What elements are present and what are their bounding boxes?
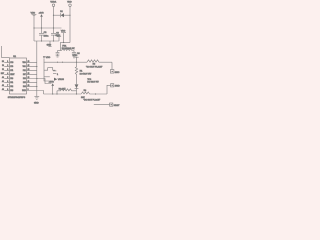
GND flag below rail at x50 bbox=[47, 41, 52, 47]
svg-text:F1: F1 bbox=[2, 69, 4, 71]
svg-text:13: 13 bbox=[28, 73, 30, 75]
IC U1 body bbox=[10, 58, 27, 94]
power symbol VDD (circle style) x70 bbox=[67, 2, 72, 7]
IC right pin stubs row 74.5 bbox=[27, 74, 37, 76]
wire net y62.2 from x44 to resistor R3 bbox=[44, 59, 87, 63]
junction at (95.5,94) bbox=[95, 93, 96, 94]
IC right pin stubs row 62.5 bbox=[27, 62, 37, 64]
svg-text:12: 12 bbox=[28, 77, 30, 79]
svg-text:PA5: PA5 bbox=[23, 81, 26, 84]
junction at (41.5,41) bbox=[41, 40, 42, 41]
junction at (57.5,62.2) bbox=[57, 62, 58, 63]
capacitor C4 at x57.5 with ground bbox=[56, 51, 61, 58]
IC left pin 6 stub bbox=[4, 82, 9, 84]
IC right pin row 78.5 wire to step bbox=[27, 79, 52, 84]
svg-text:9: 9 bbox=[28, 89, 29, 91]
svg-text:STM32F042F6P6: STM32F042F6P6 bbox=[8, 97, 26, 99]
junction at (34,28) bbox=[33, 27, 34, 28]
U1 inside pin names right column bbox=[22, 62, 26, 92]
wire +3V3 stem x41.5 down to capacitor C2 bbox=[41, 17, 43, 34]
svg-text:DO NOT FIT: DO NOT FIT bbox=[80, 73, 92, 75]
svg-text:16: 16 bbox=[28, 61, 30, 63]
diode D1 horizontal at y15.2 bbox=[60, 11, 70, 17]
junction at (53.5,15.2) bbox=[53, 15, 54, 16]
wire GND vertical x36 from rail down to ground bbox=[36, 41, 38, 96]
svg-text:+3V3: +3V3 bbox=[49, 81, 55, 83]
svg-text:D1: D1 bbox=[60, 11, 63, 13]
power flag +3V3 (arrow style) bbox=[39, 13, 45, 17]
connector J1 stepped outline bbox=[44, 62, 58, 81]
svg-text:PA0: PA0 bbox=[10, 77, 13, 80]
resistor R1 vertical on x76.5 bbox=[75, 62, 92, 84]
U1 inside pin names left column bbox=[10, 62, 14, 92]
wire from circle symbol down x53.5 bbox=[53, 6, 55, 33]
svg-text:SWC: SWC bbox=[115, 72, 120, 74]
svg-text:B8: B8 bbox=[2, 61, 4, 63]
ferrite bead FB1 labels bbox=[62, 45, 75, 50]
svg-text:TP2: TP2 bbox=[87, 79, 92, 81]
svg-text:SWD: SWD bbox=[115, 86, 120, 88]
resistor R2 zigzag row y90.8 bbox=[57, 89, 77, 91]
junction at (52.7,94) bbox=[52, 93, 53, 94]
junction at (63.6,42.5) bbox=[63, 42, 64, 43]
junction at (76.5,94) bbox=[76, 93, 77, 94]
svg-text:R3: R3 bbox=[93, 64, 96, 66]
IC right pin stubs row 86.5 bbox=[27, 86, 37, 88]
svg-text:15: 15 bbox=[28, 65, 30, 67]
pin numbers U1 left side bbox=[7, 61, 8, 91]
wire from x53.5 junction to diode D1 bbox=[54, 14, 61, 16]
diode D2 vertical on x76.5 bbox=[75, 84, 79, 94]
power flag VDD (bar style) top-left bbox=[31, 13, 37, 16]
capacitor C5 at x74 with ground bbox=[72, 51, 81, 59]
svg-text:PA1: PA1 bbox=[10, 81, 13, 84]
svg-text:"DO NOT PLACE": "DO NOT PLACE" bbox=[86, 65, 103, 68]
connector pin P2 bbox=[111, 84, 121, 88]
junction at (62.5,62.2) bbox=[62, 62, 63, 63]
svg-text:R4: R4 bbox=[84, 90, 87, 92]
connector pin P1 bbox=[110, 70, 120, 74]
resistor R3 (do not place) on y62.2 bbox=[86, 60, 112, 69]
GND flag above rail at x59 bbox=[55, 35, 61, 41]
junction at (57,94) bbox=[56, 93, 57, 94]
svg-text:VDD: VDD bbox=[23, 62, 27, 64]
junction at (36,78.5) bbox=[36, 78, 37, 79]
net labels left of U1 pins bbox=[1, 61, 4, 91]
svg-text:VDDA: VDDA bbox=[50, 1, 56, 4]
IC left pin 1 stub bbox=[4, 62, 9, 64]
wire VDD stem x34 from flag down to gnd rail bbox=[33, 15, 35, 41]
svg-text:PA7: PA7 bbox=[23, 73, 26, 76]
svg-text:A0: A0 bbox=[2, 76, 4, 79]
ground rail y41 bbox=[34, 40, 59, 42]
svg-text:VDD: VDD bbox=[67, 2, 72, 4]
svg-text:PA13: PA13 bbox=[22, 89, 26, 92]
capacitor C3 on x53.5 bbox=[51, 33, 56, 41]
svg-text:C6: C6 bbox=[77, 53, 80, 55]
junction at (53.5,41) bbox=[53, 40, 54, 41]
svg-text:10: 10 bbox=[28, 85, 30, 87]
svg-text:VSS: VSS bbox=[23, 66, 26, 68]
wire left-edge net into IC top bbox=[1, 46, 9, 57]
svg-text:PA4: PA4 bbox=[23, 85, 26, 88]
junction at (76.5,62.2) bbox=[76, 62, 77, 63]
svg-text:1: 1 bbox=[57, 74, 58, 76]
svg-text:A1: A1 bbox=[2, 80, 4, 83]
svg-text:GND: GND bbox=[34, 103, 39, 105]
svg-text:DO NOT FIT: DO NOT FIT bbox=[87, 82, 99, 84]
svg-text:100n: 100n bbox=[44, 36, 50, 38]
wire x70 from circle down to y42.5 bbox=[69, 6, 71, 42]
svg-text:C3: C3 bbox=[56, 32, 59, 34]
svg-text:PB8: PB8 bbox=[10, 62, 13, 64]
wire corner x112 down to connector P1 bbox=[111, 62, 113, 69]
junction at (36,66.5) bbox=[36, 66, 37, 67]
IC right pin row 90.5 wire corner to bottom net bbox=[27, 91, 44, 95]
svg-text:NRST: NRST bbox=[10, 74, 14, 76]
connector pin P3 bbox=[110, 103, 121, 107]
resistor FB1 zigzag row y50.5 bbox=[60, 49, 74, 51]
IC right pin stubs row 70.5 bbox=[27, 70, 37, 72]
svg-text:11: 11 bbox=[28, 81, 30, 83]
svg-text:RST: RST bbox=[1, 73, 4, 75]
IC right pin stubs row 82.5 bbox=[27, 82, 37, 84]
IC left pin 5 stub bbox=[4, 78, 9, 80]
IC left pin 8 stub bbox=[4, 90, 9, 92]
svg-text:"DO NOT PLACE": "DO NOT PLACE" bbox=[83, 99, 100, 102]
IC left pin 3 stub bbox=[4, 70, 9, 72]
svg-text:VDD: VDD bbox=[31, 13, 36, 15]
net flag arrow down at x44 bbox=[43, 56, 51, 59]
resistor R4 zigzag on y94 bbox=[81, 92, 107, 94]
pin numbers U1 right side bbox=[28, 61, 30, 91]
capacitor C2 on x41.5 bbox=[39, 32, 49, 41]
svg-text:VBUS: VBUS bbox=[58, 79, 64, 81]
svg-text:14: 14 bbox=[28, 69, 30, 71]
junction at (53.5,28) bbox=[53, 27, 54, 28]
svg-text:A3: A3 bbox=[2, 88, 4, 91]
ground GND1 below x36 bbox=[34, 97, 39, 105]
wire corner x107 up to connector P2 bbox=[107, 85, 111, 94]
power flag above x76.5 bbox=[73, 55, 79, 62]
junction at (36,86.5) bbox=[36, 86, 37, 87]
resistor R4 labels bbox=[81, 90, 100, 101]
wire corner x57 from row y90.8 to net y94 bbox=[56, 91, 58, 94]
junction at (70,15.2) bbox=[69, 15, 70, 16]
wire power bus y28 bbox=[34, 27, 62, 29]
svg-text:PA2: PA2 bbox=[10, 85, 13, 88]
svg-text:PF0: PF0 bbox=[10, 66, 13, 68]
wire hook from y42.5 down to ferrite row bbox=[59, 43, 61, 51]
IC left pin 2 stub bbox=[4, 66, 9, 68]
svg-text:PA3: PA3 bbox=[10, 89, 13, 92]
svg-text:PB1: PB1 bbox=[23, 70, 26, 72]
power symbol VBAT (circle style) x53.5 bbox=[50, 1, 56, 7]
junction at (41.5,28) bbox=[41, 27, 42, 28]
svg-text:NRST: NRST bbox=[114, 105, 120, 107]
svg-text:C2: C2 bbox=[44, 32, 48, 34]
svg-text:GND: GND bbox=[47, 45, 52, 47]
svg-text:PA6: PA6 bbox=[23, 77, 26, 80]
svg-text:VDD: VDD bbox=[46, 57, 51, 59]
IC left pin 7 stub bbox=[4, 86, 9, 88]
svg-text:R1: R1 bbox=[80, 70, 84, 72]
svg-text:PF1: PF1 bbox=[10, 70, 13, 72]
power flag VDD on bus end (bar+stem x63.6) bbox=[61, 31, 66, 43]
IC left pin 4 stub bbox=[4, 74, 9, 76]
wire y42.5 between x60.3 and x70 bbox=[60, 42, 70, 44]
wire bottom net y94 bbox=[44, 93, 82, 95]
svg-text:F0: F0 bbox=[2, 65, 4, 67]
svg-text:A2: A2 bbox=[2, 84, 4, 87]
net flag arrow right (J1 pin) bbox=[54, 78, 64, 82]
wire stub to connector P3 bbox=[94, 104, 110, 106]
IC right pin stubs row 66.5 bbox=[27, 66, 37, 68]
power arrow +3V3 at x52.7 bbox=[49, 81, 55, 94]
